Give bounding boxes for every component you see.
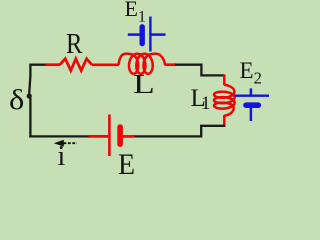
wire bottom right black step bbox=[133, 126, 225, 137]
wire top right black with step down bbox=[175, 65, 225, 76]
emf E2 thin long plate bbox=[235, 94, 269, 96]
label delta (switch) bbox=[9, 86, 24, 115]
battery E left red lead bbox=[89, 135, 109, 138]
switch contact dot bbox=[27, 93, 32, 98]
emf E2 bottom lead bbox=[250, 105, 253, 121]
inductor L coil (red) bbox=[119, 54, 166, 74]
wire top-left horizontal black bbox=[29, 64, 47, 66]
wire red below L1 bbox=[223, 115, 226, 125]
wire red lead into resistor bbox=[46, 63, 61, 66]
wire red lead right of L bbox=[165, 63, 177, 66]
label L1 bbox=[191, 86, 206, 111]
wire left vertical upper (above switch) bbox=[29, 64, 30, 94]
battery E right red lead bbox=[121, 135, 135, 138]
label L bbox=[133, 71, 155, 98]
wire red lead resistor to inductor L bbox=[92, 63, 119, 66]
wire left vertical lower (below switch) bbox=[29, 98, 31, 138]
emf E1 left lead (blue) bbox=[128, 33, 140, 36]
wire red vertical into L1 bbox=[223, 75, 226, 86]
label R bbox=[66, 31, 82, 59]
emf E1 thick short plate bbox=[139, 27, 144, 44]
label E battery bbox=[118, 150, 135, 180]
label E2 bbox=[240, 59, 262, 87]
label E1 bbox=[125, 0, 146, 25]
wire bottom left black bbox=[29, 135, 89, 137]
battery E thick short plate bbox=[117, 127, 123, 144]
emf E2 thick short plate bbox=[246, 102, 258, 108]
inductor L1 coil (red, vertical) bbox=[214, 85, 235, 116]
resistor R zigzag bbox=[60, 59, 92, 71]
emf E2 top lead (blue) bbox=[250, 88, 253, 95]
emf E1 thin long plate bbox=[149, 17, 151, 52]
emf E1 right lead bbox=[150, 33, 165, 36]
label L1 subscript bbox=[201, 94, 211, 113]
current arrow (left-pointing, dashed shaft) bbox=[64, 142, 78, 144]
label i current bbox=[58, 143, 66, 171]
battery E thin long plate bbox=[108, 115, 111, 157]
